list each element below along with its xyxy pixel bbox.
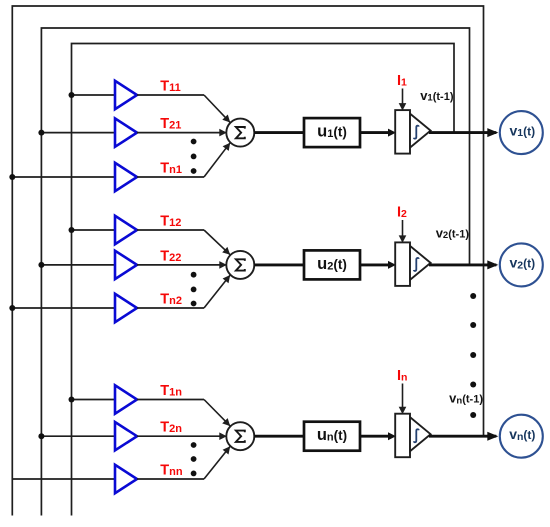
svg-text:v2(t): v2(t)	[509, 255, 535, 272]
svg-text:v1(t-1): v1(t-1)	[420, 88, 454, 104]
svg-text:v1(t): v1(t)	[509, 122, 535, 139]
svg-text:v2(t-1): v2(t-1)	[436, 225, 470, 241]
svg-text:vn(t-1): vn(t-1)	[449, 391, 483, 407]
